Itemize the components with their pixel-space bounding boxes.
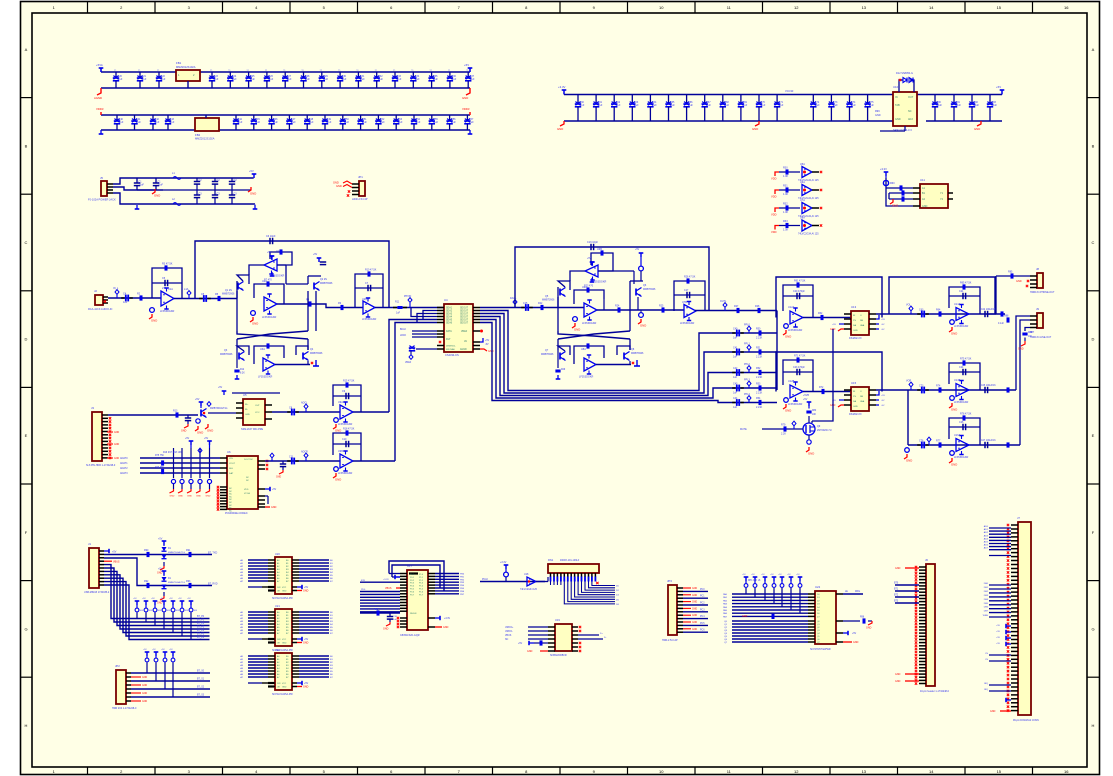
svg-text:R31: R31	[783, 185, 788, 188]
svg-text:LF353DGKR: LF353DGKR	[362, 318, 377, 321]
svg-text:RP1 10K x8: RP1 10K x8	[748, 580, 761, 582]
svg-text:MMBT3906: MMBT3906	[643, 288, 656, 291]
svg-text:13: 13	[862, 5, 867, 10]
svg-text:U21: U21	[275, 604, 280, 608]
svg-text:PC1: PC1	[700, 596, 705, 598]
svg-text:GND: GND	[692, 602, 697, 604]
svg-text:D-: D-	[604, 637, 607, 639]
svg-text:.1uF: .1uF	[761, 104, 766, 107]
svg-text:DACL: DACL	[510, 297, 517, 300]
svg-text:HDR-2.54 14P: HDR-2.54 14P	[662, 639, 678, 642]
svg-text:1uF: 1uF	[123, 301, 128, 304]
svg-text:GND: GND	[742, 615, 748, 618]
svg-text:BT_P2: BT_P2	[197, 623, 205, 625]
svg-text:VBUS: VBUS	[113, 561, 120, 564]
svg-text:GND: GND	[207, 429, 213, 433]
svg-text:NB: NB	[860, 320, 864, 322]
svg-text:GND: GND	[250, 192, 256, 196]
svg-text:GND: GND	[197, 431, 203, 435]
svg-text:R7 470: R7 470	[264, 279, 272, 282]
svg-text:R75 47.5K: R75 47.5K	[960, 358, 972, 361]
svg-text:1.0K: 1.0K	[783, 229, 788, 232]
svg-text:1.0K: 1.0K	[783, 193, 788, 196]
svg-text:OUTL: OUTL	[720, 300, 727, 303]
svg-text:LE: LE	[845, 591, 848, 593]
svg-text:GND: GND	[245, 414, 250, 416]
svg-text:GND: GND	[303, 590, 309, 593]
svg-text:GND: GND	[692, 588, 697, 590]
svg-text:C26: C26	[959, 421, 964, 424]
svg-text:MMBT3906: MMBT3906	[542, 299, 555, 302]
svg-text:10uF: 10uF	[992, 104, 998, 107]
svg-text:NA: NA	[853, 324, 857, 327]
svg-text:GND: GND	[206, 496, 211, 498]
svg-text:10: 10	[659, 5, 664, 10]
svg-text:BT_P4: BT_P4	[197, 630, 205, 632]
svg-text:R65 47.5K: R65 47.5K	[960, 282, 972, 285]
svg-text:.1uF: .1uF	[833, 104, 838, 107]
svg-text:MMBT3906: MMBT3906	[222, 293, 235, 296]
svg-text:R95: R95	[374, 609, 379, 611]
svg-text:BT_S0: BT_S0	[197, 671, 205, 673]
svg-text:HDR 2X4 1-1734248-0: HDR 2X4 1-1734248-0	[112, 707, 137, 710]
svg-text:R88: R88	[1004, 315, 1009, 318]
svg-text:.1uF: .1uF	[433, 78, 438, 81]
svg-text:U7B: U7B	[682, 301, 687, 304]
svg-text:-5V: -5V	[881, 324, 885, 326]
svg-text:WRL: WRL	[855, 591, 861, 593]
svg-text:VDD: VDD	[771, 230, 777, 234]
svg-text:GND: GND	[785, 409, 791, 413]
svg-text:+5V: +5V	[587, 258, 592, 260]
svg-text:ADJ: ADJ	[908, 118, 913, 121]
svg-text:BCLK: BCLK	[400, 329, 406, 331]
svg-text:+5V: +5V	[996, 643, 1000, 645]
svg-text:+5V: +5V	[485, 340, 490, 342]
svg-text:ADCL: ADCL	[301, 402, 308, 405]
svg-text:SN65220DBVR: SN65220DBVR	[550, 654, 567, 657]
svg-text:VBUS: VBUS	[505, 635, 512, 637]
svg-text:R25: R25	[659, 305, 664, 308]
svg-text:R22: R22	[538, 302, 543, 305]
svg-text:JP3: JP3	[667, 579, 672, 583]
svg-text:SN74LVC245A-PW: SN74LVC245A-PW	[272, 693, 293, 696]
svg-text:GND: GND	[853, 406, 858, 408]
svg-text:R61 47.5K: R61 47.5K	[794, 280, 806, 283]
svg-text:+5V: +5V	[996, 637, 1000, 639]
svg-text:SDA6: SDA6	[446, 322, 453, 325]
svg-text:.1uF: .1uF	[136, 121, 141, 124]
svg-text:MUTE: MUTE	[740, 428, 747, 431]
svg-text:-5V: -5V	[881, 329, 885, 331]
svg-text:.1uF: .1uF	[652, 104, 657, 107]
svg-text:SDOUT: SDOUT	[460, 320, 469, 322]
svg-text:+5V: +5V	[996, 85, 1001, 89]
svg-text:BT_S3: BT_S3	[197, 695, 205, 697]
svg-text:GND: GND	[922, 205, 928, 208]
svg-text:C: C	[25, 240, 28, 245]
svg-text:SSM-2167 MIC-PRE: SSM-2167 MIC-PRE	[241, 428, 263, 431]
svg-text:GND: GND	[114, 458, 119, 460]
svg-text:GND: GND	[196, 496, 201, 498]
svg-text:.1uF: .1uF	[327, 121, 332, 124]
svg-text:LF353DGKR: LF353DGKR	[954, 456, 969, 459]
svg-text:GND: GND	[808, 452, 814, 456]
svg-text:.1uF: .1uF	[451, 78, 456, 81]
svg-text:U14A: U14A	[954, 303, 961, 306]
svg-text:GND: GND	[114, 432, 119, 434]
svg-text:10uF: 10uF	[937, 104, 943, 107]
svg-text:MMBZ5V6ALT1G: MMBZ5V6ALT1G	[168, 551, 185, 554]
svg-text:PPL0: PPL0	[744, 324, 751, 327]
svg-text:VAA: VAA	[860, 324, 865, 327]
svg-text:.1uF: .1uF	[309, 121, 314, 124]
svg-text:BT_S2: BT_S2	[197, 687, 205, 689]
svg-text:.1uF: .1uF	[706, 104, 711, 107]
svg-text:10uF: 10uF	[974, 104, 980, 107]
svg-text:GND: GND	[692, 615, 697, 617]
svg-text:R60: R60	[890, 182, 895, 185]
svg-text:+3.3V: +3.3V	[500, 561, 507, 564]
svg-text:PC5: PC5	[700, 623, 705, 625]
svg-text:R80: R80	[812, 410, 817, 412]
svg-text:R18 47.5K: R18 47.5K	[343, 428, 355, 431]
svg-text:U3A: U3A	[260, 348, 265, 351]
svg-text:SN74HC573APWR: SN74HC573APWR	[810, 648, 831, 651]
svg-text:+5V: +5V	[313, 254, 318, 256]
svg-text:GND: GND	[170, 496, 175, 498]
svg-text:A: A	[25, 47, 28, 52]
svg-text:U14B: U14B	[954, 379, 961, 382]
svg-text:VDD: VDD	[771, 177, 777, 181]
svg-text:LF353DGKR: LF353DGKR	[258, 376, 273, 379]
svg-text:D: D	[1092, 337, 1095, 342]
svg-text:IN_L: IN_L	[113, 287, 119, 290]
svg-text:2N7002W-7-F: 2N7002W-7-F	[817, 429, 833, 432]
svg-text:PC3: PC3	[700, 609, 705, 611]
svg-text:VOR: VOR	[906, 380, 911, 383]
svg-text:VDD: VDD	[771, 213, 777, 217]
svg-text:8.2K: 8.2K	[240, 373, 245, 375]
svg-text:+3.3V: +3.3V	[383, 579, 389, 581]
svg-text:MMBT3906: MMBT3906	[541, 353, 554, 356]
svg-text:10uF: 10uF	[158, 184, 164, 187]
svg-text:C16 10pF: C16 10pF	[587, 241, 598, 244]
svg-text:U7A: U7A	[800, 199, 805, 202]
svg-text:J5: J5	[100, 176, 103, 180]
svg-text:14: 14	[929, 5, 934, 10]
svg-text:HDR-2.54 4P: HDR-2.54 4P	[352, 197, 368, 201]
svg-text:DIR: DIR	[277, 587, 281, 589]
svg-text:C40: C40	[733, 328, 738, 331]
svg-text:+5VA: +5VA	[96, 63, 103, 67]
svg-text:+5V: +5V	[881, 395, 885, 397]
svg-text:G: G	[24, 626, 27, 631]
svg-text:R12: R12	[240, 369, 245, 371]
svg-text:B: B	[25, 143, 28, 148]
svg-text:PJ-102A POWER JACK: PJ-102A POWER JACK	[88, 198, 116, 202]
svg-text:R91: R91	[186, 549, 191, 552]
svg-text:U10: U10	[893, 85, 899, 89]
svg-text:R16 R17 R18 10K: R16 R17 R18 10K	[163, 452, 182, 454]
svg-text:.1uF: .1uF	[851, 104, 856, 107]
svg-text:0.1uF: 0.1uF	[998, 323, 1004, 325]
svg-text:+5V: +5V	[112, 551, 117, 554]
svg-text:CS: CS	[985, 653, 989, 655]
svg-text:SDOUT: SDOUT	[460, 311, 469, 313]
svg-text:R27: R27	[734, 305, 739, 308]
svg-text:GND: GND	[785, 335, 791, 339]
svg-text:U2B: U2B	[362, 298, 367, 301]
svg-text:GND: GND	[866, 627, 872, 630]
svg-text:PC2: PC2	[700, 603, 705, 605]
svg-text:BT0: BT0	[894, 583, 899, 585]
svg-text:.1uF: .1uF	[616, 104, 621, 107]
svg-text:R10 47.5K: R10 47.5K	[365, 269, 377, 272]
svg-text:PCM2902E-CODEC: PCM2902E-CODEC	[225, 512, 248, 515]
svg-text:C17: C17	[684, 289, 689, 292]
svg-text:.1uF: .1uF	[360, 78, 365, 81]
svg-text:R92: R92	[144, 580, 149, 583]
svg-text:GND: GND	[895, 118, 901, 121]
svg-text:IN: IN	[895, 96, 898, 99]
svg-text:.1uF: .1uF	[779, 104, 784, 107]
svg-text:GND: GND	[181, 430, 187, 433]
svg-text:BT_P1: BT_P1	[197, 620, 205, 622]
svg-text:GND: GND	[895, 680, 901, 683]
svg-text:SDA1: SDA1	[446, 307, 453, 310]
svg-text:GND: GND	[383, 628, 389, 631]
svg-text:FILT: FILT	[446, 339, 451, 341]
svg-text:R26 47.5K: R26 47.5K	[684, 276, 696, 279]
svg-text:BT1: BT1	[894, 589, 899, 591]
svg-text:RN1: RN1	[548, 558, 554, 562]
svg-text:PC6: PC6	[700, 630, 705, 632]
svg-text:1.0K: 1.0K	[783, 175, 788, 178]
svg-text:15: 15	[997, 769, 1002, 774]
svg-text:ADAT2: ADAT2	[120, 467, 128, 470]
svg-text:+5V: +5V	[185, 438, 190, 440]
svg-text:GND: GND	[276, 477, 281, 479]
svg-text:GND: GND	[557, 127, 563, 131]
svg-text:E: E	[1092, 433, 1095, 438]
svg-text:LF353DGKR: LF353DGKR	[788, 403, 803, 406]
svg-text:R72: R72	[819, 386, 824, 389]
svg-text:GND: GND	[142, 693, 147, 695]
svg-text:DIR: DIR	[277, 683, 281, 685]
svg-text:.1uF: .1uF	[170, 121, 175, 124]
svg-text:U11: U11	[920, 178, 925, 182]
svg-text:+5VB: +5VB	[803, 394, 809, 397]
svg-text:C43: C43	[733, 383, 738, 386]
svg-text:U18: U18	[524, 573, 529, 576]
svg-text:R90: R90	[144, 549, 149, 552]
svg-text:+5V: +5V	[272, 489, 277, 491]
svg-text:ADAT0: ADAT0	[120, 457, 128, 460]
svg-text:USB-MINI-B 1734035-2: USB-MINI-B 1734035-2	[84, 591, 110, 594]
svg-text:GND: GND	[692, 622, 697, 624]
svg-text:MMBT3904LT1G: MMBT3904LT1G	[210, 408, 228, 410]
svg-text:GND: GND	[853, 330, 858, 332]
svg-text:G: G	[1091, 626, 1094, 631]
svg-text:BT_P3: BT_P3	[197, 627, 205, 629]
svg-text:GND: GND	[271, 506, 277, 509]
svg-text:HDR1X4 PHONE-OUT: HDR1X4 PHONE-OUT	[1030, 291, 1055, 294]
svg-text:GND: GND	[488, 350, 494, 353]
svg-text:MIV/SAD: MIV/SAD	[446, 348, 455, 351]
svg-text:GND: GND	[974, 127, 980, 131]
svg-text:AGND: AGND	[460, 348, 467, 351]
svg-text:GND: GND	[187, 496, 192, 498]
svg-text:+5V: +5V	[996, 625, 1000, 627]
svg-text:.1uF: .1uF	[119, 121, 124, 124]
svg-text:C44: C44	[733, 397, 738, 400]
svg-text:SN74LVC245A-PW: SN74LVC245A-PW	[272, 597, 293, 600]
svg-text:.1uF: .1uF	[398, 121, 403, 124]
svg-text:.1uF: .1uF	[214, 78, 219, 81]
svg-text:VCC: VCC	[282, 639, 287, 641]
svg-text:J9: J9	[1036, 307, 1039, 311]
svg-text:H: H	[25, 723, 28, 728]
svg-text:BT3: BT3	[894, 601, 899, 603]
svg-text:GND: GND	[527, 650, 533, 653]
svg-text:SDOUT: SDOUT	[460, 314, 469, 316]
svg-text:GND: GND	[252, 322, 258, 326]
svg-text:L1A: L1A	[184, 288, 189, 291]
svg-text:GND: GND	[303, 642, 309, 645]
svg-text:GND: GND	[853, 641, 859, 644]
svg-text:GND: GND	[114, 444, 119, 446]
svg-text:.1uF: .1uF	[688, 104, 693, 107]
svg-text:GND: GND	[335, 429, 341, 433]
svg-text:VCC: VCC	[255, 412, 260, 414]
svg-text:R28: R28	[755, 305, 760, 308]
svg-text:LF353DGKR: LF353DGKR	[680, 322, 695, 325]
svg-text:LF353DGKR: LF353DGKR	[160, 310, 175, 313]
svg-text:DS1802-XX: DS1802-XX	[849, 413, 862, 416]
svg-text:.1uF: .1uF	[416, 121, 421, 124]
svg-text:BT_S1: BT_S1	[197, 679, 205, 681]
svg-text:J1: J1	[88, 542, 91, 546]
svg-text:+5V: +5V	[195, 398, 200, 401]
svg-text:C15: C15	[523, 302, 528, 305]
svg-text:NB: NB	[860, 396, 864, 398]
svg-text:40-pin header 1-1734248-0: 40-pin header 1-1734248-0	[920, 690, 950, 693]
svg-text:1uF: 1uF	[733, 337, 738, 340]
svg-text:SDA2: SDA2	[446, 310, 453, 313]
svg-text:ADAT1: ADAT1	[120, 462, 128, 465]
svg-text:BT_RXD: BT_RXD	[208, 583, 218, 586]
svg-text:R74: R74	[936, 385, 941, 388]
svg-text:270pF: 270pF	[162, 287, 170, 290]
svg-text:R32: R32	[783, 203, 788, 206]
svg-text:+5V: +5V	[996, 631, 1000, 633]
svg-text:U6: U6	[227, 450, 231, 454]
svg-text:C21: C21	[959, 290, 964, 293]
svg-text:C63: C63	[919, 309, 924, 312]
svg-text:U8A: U8A	[581, 348, 586, 351]
svg-text:1uF: 1uF	[733, 406, 738, 409]
svg-text:IRQ: IRQ	[984, 689, 988, 691]
svg-text:VREF: VREF	[405, 362, 412, 364]
svg-text:GND: GND	[282, 591, 287, 593]
svg-text:SDA5: SDA5	[446, 319, 453, 322]
svg-text:VCC: VCC	[282, 683, 287, 685]
svg-text:2.21K: 2.21K	[756, 356, 763, 359]
svg-text:.1uF: .1uF	[815, 104, 820, 107]
svg-text:.1uF: .1uF	[161, 78, 166, 81]
svg-text:10uF: 10uF	[139, 184, 145, 187]
svg-text:LF353DGKR: LF353DGKR	[954, 325, 969, 328]
svg-text:LRCK: LRCK	[400, 335, 407, 337]
svg-text:ADCR: ADCR	[301, 451, 308, 454]
svg-text:VOL: VOL	[906, 304, 911, 307]
svg-text:MMBT3906: MMBT3906	[310, 352, 323, 355]
svg-text:R29: R29	[561, 369, 566, 371]
svg-text:.1uF: .1uF	[742, 104, 747, 107]
svg-text:J3: J3	[91, 406, 94, 410]
svg-text:2.2K: 2.2K	[781, 433, 786, 436]
svg-text:ADAT3: ADAT3	[120, 472, 128, 475]
svg-text:GND: GND	[157, 572, 163, 575]
svg-text:C76: C76	[919, 440, 924, 443]
svg-text:VCCA: VCCA	[244, 492, 250, 495]
svg-text:U20: U20	[275, 552, 280, 556]
svg-text:74LVC2G34,AI 125: 74LVC2G34,AI 125	[798, 233, 819, 236]
svg-text:+5V: +5V	[464, 63, 469, 67]
svg-text:U4: U4	[444, 298, 448, 302]
svg-text:J8: J8	[1036, 267, 1039, 271]
svg-text:PC4: PC4	[700, 616, 705, 618]
svg-text:C41: C41	[733, 347, 738, 350]
svg-text:U9B: U9B	[338, 450, 343, 453]
svg-text:GND: GND	[875, 114, 881, 117]
svg-text:U5A: U5A	[800, 163, 805, 166]
svg-text:+5V: +5V	[518, 643, 523, 645]
svg-text:U16A: U16A	[954, 434, 961, 437]
svg-text:GND: GND	[951, 408, 957, 412]
svg-text:R75 75K: R75 75K	[155, 455, 164, 457]
svg-text:VBUS: VBUS	[385, 587, 392, 590]
svg-text:USB D+: USB D+	[505, 627, 514, 629]
svg-text:.1uF: .1uF	[378, 78, 383, 81]
svg-text:LF353DGKR: LF353DGKR	[262, 316, 277, 319]
svg-text:12: 12	[794, 769, 799, 774]
svg-text:LF353DGKR: LF353DGKR	[954, 401, 969, 404]
svg-text:2.21K: 2.21K	[756, 392, 763, 395]
svg-text:DATA: DATA	[446, 330, 452, 333]
svg-text:R13: R13	[173, 410, 178, 413]
svg-text:4609X-101-103LF: 4609X-101-103LF	[560, 559, 580, 562]
svg-text:VDD: VDD	[244, 489, 249, 491]
svg-text:1.0K: 1.0K	[783, 211, 788, 214]
svg-text:GND: GND	[1016, 280, 1022, 283]
svg-text:R50: R50	[756, 328, 761, 331]
svg-text:R96: R96	[860, 617, 865, 619]
svg-text:-5V: -5V	[881, 400, 885, 402]
svg-text:+5V: +5V	[158, 568, 163, 571]
svg-text:VDD: VDD	[771, 195, 777, 199]
svg-text:GND: GND	[154, 194, 160, 198]
svg-text:.1uF: .1uF	[238, 121, 243, 124]
svg-text:BT_P5: BT_P5	[197, 634, 205, 636]
svg-text:R99: R99	[875, 110, 880, 113]
svg-text:R54: R54	[756, 397, 761, 400]
svg-text:BT_P6: BT_P6	[197, 637, 205, 639]
svg-text:C22 100uF/16: C22 100uF/16	[981, 309, 996, 311]
svg-text:R53: R53	[756, 383, 761, 386]
svg-text:A: A	[1092, 47, 1095, 52]
